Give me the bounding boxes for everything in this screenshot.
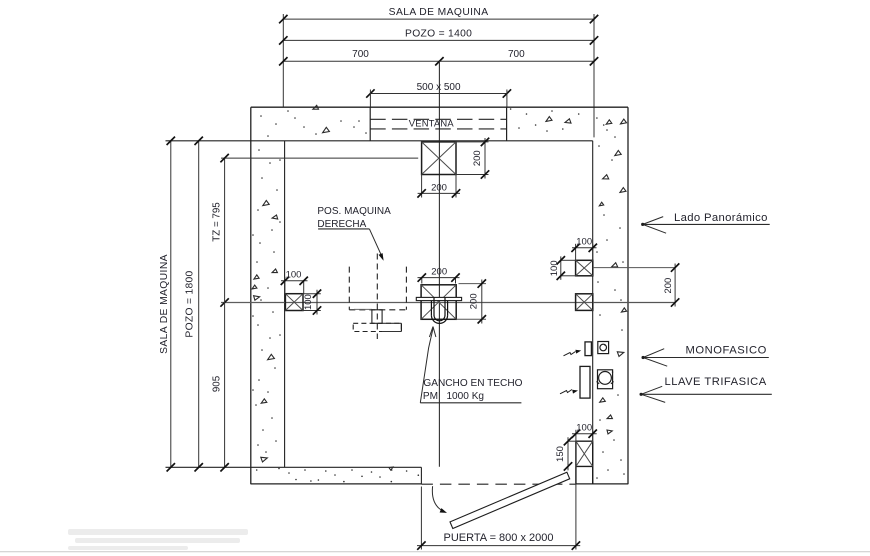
svg-text:100: 100 <box>549 260 560 276</box>
dim POZO = 1400 <box>279 29 598 45</box>
svg-text:Lado Panorámico: Lado Panorámico <box>674 212 768 224</box>
vertical centerline of plan <box>438 61 440 467</box>
dim 100 above door jamb <box>572 423 597 442</box>
faint watermark bottom <box>0 529 870 552</box>
svg-text:905: 905 <box>211 375 222 392</box>
door threshold dashed line <box>421 483 576 485</box>
dim 700 + 700 <box>279 49 598 65</box>
label POS. MAQUINA DERECHA with leader <box>317 206 391 261</box>
svg-text:100: 100 <box>576 423 592 434</box>
svg-text:500 x 500: 500 x 500 <box>417 82 461 93</box>
svg-text:100: 100 <box>576 237 592 248</box>
svg-text:LLAVE TRIFASICA: LLAVE TRIFASICA <box>665 376 767 388</box>
svg-text:700: 700 <box>508 49 525 60</box>
label GANCHO EN TECHO / PM 1000 Kg with leader <box>420 327 522 403</box>
switch monofasico (small rect on wall) <box>585 342 591 356</box>
svg-text:200: 200 <box>469 293 480 309</box>
svg-text:150: 150 <box>555 446 566 462</box>
dim 100 above left anchor <box>281 270 308 294</box>
dim 100 above column A <box>571 237 597 261</box>
svg-text:VENTANA: VENTANA <box>409 118 455 129</box>
dim 200 right of gancho <box>456 279 486 323</box>
svg-text:SALA DE MAQUINA: SALA DE MAQUINA <box>389 7 489 18</box>
label LLAVE TRIFASICA with arrow <box>640 376 772 403</box>
extension line TZ top (y=158) <box>221 157 418 159</box>
label MONOFASICO with arrow <box>642 345 769 367</box>
dim 500 x 500 (window) <box>366 82 511 107</box>
window VENTANA (opening + dashed sashes + label) <box>370 107 506 141</box>
door leaf (open) <box>450 472 570 528</box>
machine base plate <box>353 323 401 331</box>
lightning leader to llave trifasica <box>560 390 578 394</box>
extension line right of top dims <box>593 14 595 137</box>
dim TZ = 795 over 905 <box>211 154 228 472</box>
svg-text:200: 200 <box>431 183 447 194</box>
column A 100x100 right wall (crossed square) <box>576 260 593 276</box>
svg-text:100: 100 <box>286 270 302 281</box>
machine pedestal <box>372 310 382 324</box>
svg-text:POZO = 1800: POZO = 1800 <box>185 270 196 337</box>
machine center dashed line <box>376 254 378 340</box>
column 200x200 at top wall (crossed square) <box>422 142 456 175</box>
dim 200 right of top column <box>456 138 489 179</box>
concrete hatch - right wall <box>596 120 626 479</box>
svg-text:GANCHO EN TECHO: GANCHO EN TECHO <box>423 378 522 389</box>
concrete hatch - left wall <box>252 149 281 462</box>
outlet monofasico (square with circle) <box>598 342 609 354</box>
concrete hatch - top wall <box>260 105 626 137</box>
svg-text:700: 700 <box>352 49 369 60</box>
svg-text:200: 200 <box>431 266 447 277</box>
llave trifasica (tall rect on wall) <box>580 366 590 398</box>
svg-text:POS. MAQUINA: POS. MAQUINA <box>317 206 391 217</box>
svg-text:PM 1000 Kg: PM 1000 Kg <box>423 391 484 402</box>
dim 150 left of door jamb <box>555 437 576 471</box>
concrete hatch - bottom wall <box>256 467 419 482</box>
wall inner edges / room outline <box>166 141 593 484</box>
gancho mounting bar <box>416 297 461 300</box>
label Lado Panoramico with arrow <box>641 212 770 233</box>
column B 100x100 right wall at centerline (crossed square) <box>576 294 593 311</box>
dim 200 above gancho <box>418 266 460 283</box>
svg-text:POZO = 1400: POZO = 1400 <box>405 29 472 40</box>
dim POZO = 1800 <box>185 137 203 472</box>
gancho hook U-shape <box>431 298 447 324</box>
gancho crossed square 200x200 <box>421 285 456 320</box>
svg-text:SALA DE MAQUINA: SALA DE MAQUINA <box>159 254 170 354</box>
svg-text:100: 100 <box>303 294 314 310</box>
svg-text:DERECHA: DERECHA <box>317 219 366 230</box>
machine dashed outline <box>349 267 406 310</box>
outlet trifasica (square with circle) <box>597 370 614 389</box>
dim PUERTA = 800 x 2000 <box>417 484 580 550</box>
dim 100 left of column A <box>549 256 576 280</box>
lightning leader to monofasico switch <box>564 350 582 356</box>
door jamb column 100x150 (crossed square) <box>576 441 593 484</box>
dim 200 below top column <box>417 175 460 198</box>
svg-text:TZ = 795: TZ = 795 <box>211 202 222 242</box>
svg-text:200: 200 <box>472 150 483 166</box>
svg-text:PUERTA = 800 x 2000: PUERTA = 800 x 2000 <box>444 532 554 544</box>
wall outer outline <box>251 107 628 484</box>
dim SALA DE MAQUINA (top, 283-594) <box>279 7 598 23</box>
dim 100 right of left anchor <box>303 290 321 315</box>
dim SALA DE MAQUINA (left vertical) <box>159 137 175 472</box>
extension line left of top dims <box>282 14 284 107</box>
door swing arc with arrow <box>432 486 447 513</box>
horizontal centerline (TZ/905 split, through plan) <box>220 298 675 306</box>
dim 200 right of wall columns <box>593 263 680 306</box>
svg-text:200: 200 <box>663 278 674 294</box>
svg-text:MONOFASICO: MONOFASICO <box>686 345 767 357</box>
anchor column 100x100 at left wall (crossed square) <box>285 294 303 311</box>
